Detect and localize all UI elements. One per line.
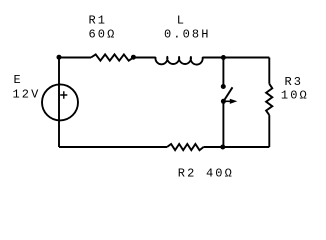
svg-text:R1: R1 bbox=[89, 13, 108, 27]
svg-text:R2: R2 bbox=[178, 166, 197, 180]
wire bottom right bbox=[204, 146, 270, 148]
svg-text:0.08H: 0.08H bbox=[164, 28, 211, 42]
wire L to top-right corner bbox=[203, 57, 270, 59]
svg-text:E: E bbox=[14, 73, 23, 87]
wire right side lower bbox=[268, 115, 270, 147]
wire R1 to L bbox=[133, 57, 155, 59]
resistor R1 bbox=[91, 54, 133, 60]
junction dot between R1 and L bbox=[131, 55, 136, 60]
junction dot bottom of switch branch bbox=[220, 145, 225, 150]
voltage source E circle bbox=[42, 84, 78, 120]
svg-text:L: L bbox=[177, 13, 186, 27]
plus sign inside source bbox=[60, 91, 67, 98]
svg-text:40Ω: 40Ω bbox=[206, 166, 234, 180]
svg-text:R3: R3 bbox=[285, 75, 304, 89]
wire bottom left bbox=[59, 146, 167, 148]
resistor R2 bbox=[167, 144, 204, 150]
switch branch upper wire bbox=[222, 58, 224, 85]
junction dot top-left corner bbox=[57, 55, 62, 60]
switch blade bbox=[224, 87, 233, 101]
wire top left horizontal bbox=[59, 57, 91, 59]
junction dot top of switch branch bbox=[221, 55, 226, 60]
resistor R3 bbox=[266, 84, 272, 115]
switch lower contact dot bbox=[221, 99, 226, 104]
wire left side through source bbox=[58, 58, 60, 148]
svg-text:12V: 12V bbox=[13, 88, 41, 102]
switch branch lower wire bbox=[222, 101, 224, 147]
svg-text:10Ω: 10Ω bbox=[281, 89, 309, 103]
svg-text:60Ω: 60Ω bbox=[89, 28, 117, 42]
inductor L bbox=[155, 57, 202, 65]
switch upper contact dot bbox=[221, 84, 226, 89]
wire right side upper bbox=[268, 58, 270, 84]
switch action arrow bbox=[224, 100, 231, 102]
